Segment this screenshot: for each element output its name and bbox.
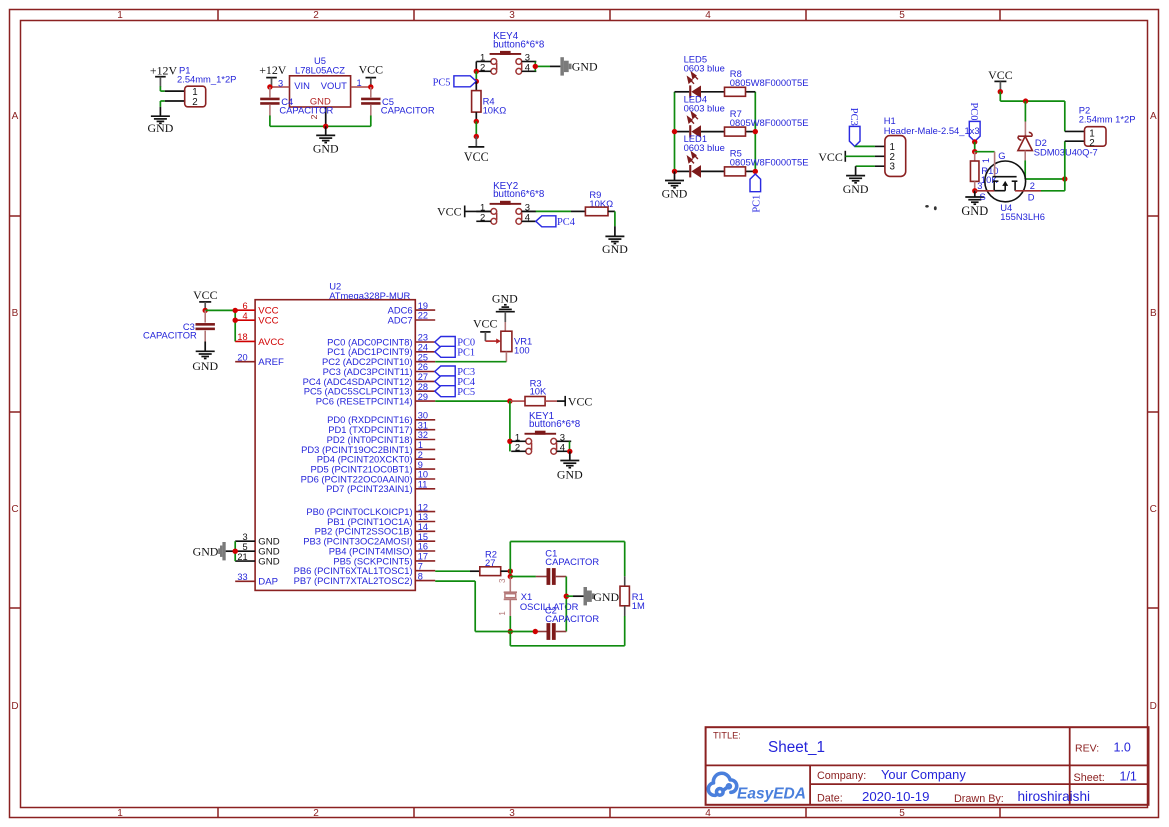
wire VCC arrow to VR1 wiper — [485, 339, 501, 344]
svg-text:C: C — [1150, 504, 1157, 515]
wire U2 pin29 to R3 — [435, 400, 510, 402]
svg-text:5: 5 — [899, 808, 905, 819]
U2 pin 4 VCC — [235, 311, 278, 327]
svg-text:VCC: VCC — [359, 62, 384, 76]
U2 pin 9 PD5 — [310, 460, 435, 475]
svg-text:VCC: VCC — [568, 394, 593, 408]
svg-text:PC0: PC0 — [968, 102, 979, 120]
U2 pin 1 PD3 — [301, 440, 435, 455]
svg-text:25: 25 — [418, 352, 428, 362]
svg-text:S: S — [980, 191, 986, 202]
svg-text:PD7 (PCINT23AIN1): PD7 (PCINT23AIN1) — [326, 483, 412, 494]
junction R3/KEY1 — [507, 398, 512, 403]
junction PC5 tap — [474, 79, 479, 84]
svg-text:27: 27 — [418, 372, 428, 382]
U2 pin 29 PC6 — [316, 392, 436, 407]
net flag PC1 — [750, 174, 762, 213]
svg-text:+12V: +12V — [259, 63, 287, 77]
svg-text:GND: GND — [193, 545, 219, 559]
svg-text:5: 5 — [899, 10, 905, 21]
wire R4 to VCC — [475, 121, 477, 136]
svg-text:PC5: PC5 — [457, 387, 475, 398]
svg-text:C: C — [11, 504, 18, 515]
svg-text:Drawn By:: Drawn By: — [954, 793, 1004, 805]
junction U2 pin4 — [233, 318, 238, 323]
U2 pin 22 ADC7 — [388, 311, 436, 326]
svg-text:3: 3 — [242, 532, 247, 542]
U2 pin 3 GND — [235, 532, 279, 548]
wire LED resistor rail — [754, 92, 756, 172]
net flag +12V (U5 input) — [259, 63, 287, 87]
wire U2 pin7 to R2 — [435, 570, 480, 572]
U2 pin 10 PD6 — [301, 470, 436, 485]
net flag VCC (U2) — [193, 288, 218, 310]
svg-text:13: 13 — [418, 512, 428, 522]
svg-text:2: 2 — [192, 97, 197, 108]
LED LED5 0603 blue — [684, 54, 725, 99]
ground GND (VR1) — [492, 291, 518, 322]
svg-text:PC5: PC5 — [433, 78, 451, 89]
U2 pin 30 PD0 — [327, 411, 435, 426]
junction X1 bottom — [508, 629, 513, 634]
svg-text:0805W8F0000T5E: 0805W8F0000T5E — [730, 117, 809, 128]
net flag VCC (VR1 wiper) — [473, 317, 498, 342]
ground port GND (KEY4) — [560, 57, 598, 75]
svg-text:PC6 (RESETPCINT14): PC6 (RESETPCINT14) — [316, 396, 413, 407]
net flag VCC (below R4) — [464, 137, 489, 164]
button KEY2 — [476, 181, 545, 224]
svg-text:PC3: PC3 — [848, 108, 859, 126]
svg-text:12: 12 — [418, 502, 428, 512]
svg-text:10KΩ: 10KΩ — [483, 104, 507, 115]
U2 pin 16 PB4 — [329, 542, 435, 557]
wire PC3 to H1 pin1 — [855, 145, 885, 147]
svg-text:4: 4 — [560, 442, 565, 453]
svg-text:SDM03U40Q-7: SDM03U40Q-7 — [1034, 146, 1098, 157]
svg-text:D: D — [1028, 192, 1035, 203]
svg-text:PC1: PC1 — [751, 195, 762, 213]
U2 pin 26 PC3 — [323, 362, 436, 377]
svg-text:VCC: VCC — [473, 317, 498, 331]
svg-text:AREF: AREF — [258, 357, 284, 368]
capacitor C2 — [510, 605, 599, 640]
svg-text:29: 29 — [418, 392, 428, 402]
svg-text:2: 2 — [1089, 138, 1094, 149]
junction LED rail left row3 — [672, 169, 677, 174]
EasyEDA logo — [708, 773, 806, 802]
svg-text:17: 17 — [418, 552, 428, 562]
U2 pin 23 PC0 — [327, 333, 435, 348]
wire LED4 row — [675, 131, 756, 133]
junction PC0 tip — [972, 139, 977, 144]
svg-text:L78L05ACZ: L78L05ACZ — [295, 65, 345, 76]
junction U2 pin5 GND — [233, 549, 238, 554]
svg-text:Header-Male-2.54_1x3: Header-Male-2.54_1x3 — [884, 125, 980, 136]
svg-text:Your Company: Your Company — [881, 767, 966, 782]
svg-text:REV:: REV: — [1075, 742, 1099, 754]
svg-text:D: D — [1150, 701, 1157, 712]
wire VCC to U2 pin6/pin4/pin18 — [205, 310, 235, 341]
net flag +12V (P1) — [150, 63, 178, 86]
svg-text:CAPACITOR: CAPACITOR — [545, 556, 599, 567]
wire C4/C5 to GND rail — [270, 116, 371, 127]
net flag PC4 — [522, 216, 576, 228]
ground GND (U4 source) — [961, 191, 988, 218]
svg-text:AVCC: AVCC — [258, 337, 284, 348]
svg-text:VOUT: VOUT — [321, 80, 347, 91]
svg-text:0805W8F0000T5E: 0805W8F0000T5E — [730, 77, 809, 88]
wire crystal left rail — [509, 542, 511, 577]
net flag VCC (U5 output) — [359, 62, 384, 87]
net flag VCC (H1) — [818, 150, 845, 164]
wire VCC to H1 pin2 — [845, 155, 885, 157]
wire KEY1 pins 3-4 to GND — [569, 441, 571, 451]
wire C1/C2 right rail — [565, 577, 567, 632]
svg-text:GND: GND — [313, 141, 339, 155]
potentiometer VR1 100 — [501, 322, 532, 362]
junction VCC stem — [998, 89, 1003, 94]
resistor R2 27 — [480, 549, 511, 576]
U2 pin 6 VCC — [235, 301, 278, 317]
resistor R5 0805W8F0000T5E — [725, 148, 809, 176]
title block — [706, 727, 1149, 805]
U2 pin 32 PD2 — [327, 430, 436, 445]
svg-text:VCC: VCC — [258, 316, 278, 327]
svg-text:ADC7: ADC7 — [388, 314, 413, 325]
svg-text:1M: 1M — [632, 600, 645, 611]
junction KEY4 pin4 net — [533, 64, 538, 69]
wire PC5 tap to R4 — [475, 81, 477, 90]
svg-text:21: 21 — [237, 552, 247, 562]
crystal X1 OSCILLATOR — [498, 577, 578, 617]
svg-text:CAPACITOR: CAPACITOR — [143, 330, 197, 341]
svg-text:A: A — [12, 111, 19, 122]
svg-text:PB7 (PCINT7XTAL2TOSC2): PB7 (PCINT7XTAL2TOSC2) — [294, 575, 413, 586]
svg-text:EasyEDA: EasyEDA — [737, 786, 806, 803]
junction R4 lower 2 — [474, 134, 479, 139]
junction LED rail left row2 — [672, 129, 677, 134]
net flag PC1 (U2 pin24) — [435, 346, 475, 358]
U2 pin 25 PC2 — [322, 352, 435, 367]
svg-text:31: 31 — [418, 420, 428, 430]
capacitor C4 — [260, 87, 333, 116]
svg-text:button6*6*8: button6*6*8 — [493, 189, 545, 200]
svg-text:26: 26 — [418, 362, 428, 372]
svg-text:GND: GND — [148, 121, 174, 135]
ground GND (R9) — [605, 235, 624, 237]
junction resistor rail row3 — [753, 169, 758, 174]
svg-text:3: 3 — [977, 181, 982, 191]
wire U2 GND pins — [234, 541, 236, 561]
svg-text:24: 24 — [418, 343, 428, 353]
svg-text:155N3LH6: 155N3LH6 — [1000, 211, 1045, 222]
junction drain rail — [1062, 176, 1067, 181]
svg-text:GND: GND — [572, 60, 598, 74]
svg-text:6: 6 — [242, 301, 247, 311]
svg-text:A: A — [1150, 111, 1157, 122]
wire +12V to P1 pin 1 — [160, 86, 184, 91]
wire crystal bottom-left — [509, 632, 511, 646]
resistor R3 10K — [510, 377, 565, 405]
svg-text:5: 5 — [242, 542, 247, 552]
wire LED5 row — [675, 91, 756, 93]
wire KEY4 pins 3-4 and to GND — [535, 62, 560, 72]
wire gate tap to U4 gate — [975, 151, 995, 153]
svg-text:100: 100 — [514, 345, 530, 356]
U2 pin 31 PD1 — [328, 420, 435, 435]
svg-text:3: 3 — [509, 808, 515, 819]
svg-text:11: 11 — [418, 480, 428, 490]
U2 pin 24 PC1 — [327, 343, 435, 358]
svg-text:2: 2 — [515, 442, 520, 453]
junction U5 pin1 — [368, 84, 373, 89]
wire R1 top — [624, 542, 626, 577]
ground port GND (crystal) — [566, 587, 619, 605]
U2 pin 15 PB3 — [303, 532, 435, 547]
svg-text:4: 4 — [705, 10, 711, 21]
resistor R4 10K — [472, 91, 507, 122]
svg-text:3: 3 — [278, 79, 283, 89]
svg-text:G: G — [998, 150, 1005, 161]
svg-text:19: 19 — [418, 301, 428, 311]
diode D2 SDM03U40Q-7 — [1018, 101, 1098, 160]
svg-text:DAP: DAP — [258, 577, 278, 588]
svg-text:1: 1 — [357, 78, 362, 88]
svg-text:8: 8 — [418, 571, 423, 581]
regulator U5 L78L05ACZ — [270, 55, 371, 127]
svg-text:1: 1 — [117, 808, 123, 819]
junction U5 pin3 — [267, 84, 272, 89]
wire U2 pin25 to VR1 — [435, 361, 506, 363]
svg-text:GND: GND — [258, 557, 279, 568]
wire VCC rail to P2 pin1 — [1000, 92, 1065, 132]
svg-text:PC4: PC4 — [557, 217, 576, 228]
LED LED1 0603 blue — [684, 133, 725, 178]
junction U4 source — [972, 188, 977, 193]
wire LED cathode rail — [674, 92, 676, 172]
svg-text:9: 9 — [418, 460, 423, 470]
U2 pin 7 PB6 — [294, 561, 436, 576]
net flag VCC (U4) — [988, 68, 1013, 92]
U2 pin 11 PD7 — [326, 480, 435, 495]
junction KEY4 pin2 — [474, 69, 479, 74]
junction KEY1 pin1 — [507, 439, 512, 444]
svg-text:TITLE:: TITLE: — [713, 730, 741, 740]
resistor R8 0805W8F0000T5E — [725, 68, 809, 96]
wire P2 pin2 to drain — [1041, 141, 1065, 191]
U2 pin 2 PD4 — [317, 450, 435, 465]
svg-text:Sheet:: Sheet: — [1074, 772, 1105, 784]
svg-text:20: 20 — [237, 352, 247, 362]
svg-text:+12V: +12V — [150, 63, 178, 77]
wire PC0 to R10/gate — [974, 142, 976, 152]
svg-text:GND: GND — [557, 467, 583, 481]
net flag PC0 — [968, 102, 980, 141]
svg-text:VCC: VCC — [818, 150, 843, 164]
svg-text:1.0: 1.0 — [1114, 740, 1131, 754]
junction KEY1 pin4 — [567, 449, 572, 454]
svg-text:VCC: VCC — [437, 204, 462, 218]
svg-text:14: 14 — [418, 522, 428, 532]
wire crystal bottom edge — [510, 645, 624, 647]
svg-text:Company:: Company: — [817, 770, 866, 782]
svg-text:D: D — [11, 701, 18, 712]
svg-text:23: 23 — [418, 333, 428, 343]
connector P2 — [1065, 105, 1136, 150]
net flag PC3 (U2 pin26) — [435, 366, 475, 378]
wire LED1 row — [675, 170, 756, 172]
junction U5 GND rail — [323, 124, 328, 129]
net flag PC4 (U2 pin27) — [435, 376, 476, 388]
svg-text:GND: GND — [492, 291, 518, 305]
svg-text:2.54mm_1*2P: 2.54mm_1*2P — [177, 74, 236, 85]
svg-text:18: 18 — [237, 332, 247, 342]
svg-text:3: 3 — [498, 578, 507, 583]
U2 pin 27 PC4 — [303, 372, 436, 387]
ground GND (KEY1) — [557, 451, 583, 481]
svg-text:2: 2 — [480, 212, 485, 223]
junction R2 output — [508, 569, 513, 574]
svg-text:CAPACITOR: CAPACITOR — [279, 104, 333, 115]
stray dots — [925, 205, 936, 210]
svg-text:0805W8F0000T5E: 0805W8F0000T5E — [730, 157, 809, 168]
svg-text:16: 16 — [418, 542, 428, 552]
wire GND to H1 pin3 — [856, 166, 885, 175]
U2 pin 21 GND — [235, 552, 279, 568]
transistor U4 155N3LH6 (N-MOSFET) — [975, 150, 1045, 222]
svg-text:GND: GND — [843, 182, 869, 196]
ground GND (H1) — [846, 175, 865, 177]
svg-text:2: 2 — [1030, 181, 1035, 191]
svg-text:GND: GND — [192, 359, 218, 373]
wire R1 bottom — [624, 616, 626, 646]
wire crystal top edge — [510, 541, 624, 543]
net flag PC5 — [433, 76, 477, 89]
svg-text:VCC: VCC — [464, 150, 489, 164]
U2 pin 8 PB7 — [294, 571, 436, 586]
net flag PC3 — [848, 108, 860, 147]
connector P1 — [177, 64, 236, 108]
svg-text:button6*6*8: button6*6*8 — [529, 419, 581, 430]
wire KEY1 pin1 rail — [509, 401, 511, 451]
svg-text:2: 2 — [313, 10, 319, 21]
wire P1 pin 2 to GND — [160, 101, 184, 116]
U2 pin 17 PB5 — [333, 552, 435, 567]
svg-text:4: 4 — [525, 62, 530, 73]
svg-text:GND: GND — [961, 204, 988, 218]
header H1 Header-Male-2.54_1x3 — [884, 115, 980, 176]
svg-text:VCC: VCC — [193, 288, 218, 302]
svg-text:2.54mm 1*2P: 2.54mm 1*2P — [1079, 114, 1136, 125]
net flag PC5 (U2 pin28) — [435, 386, 475, 398]
junction VCC/C3 — [203, 308, 208, 313]
resistor R10 10K — [970, 152, 998, 191]
svg-text:2: 2 — [480, 62, 485, 73]
svg-text:hiroshiraishi: hiroshiraishi — [1018, 789, 1091, 804]
wire KEY4 pin2 to PC5 — [475, 71, 477, 81]
svg-text:1: 1 — [418, 440, 423, 450]
svg-text:Sheet_1: Sheet_1 — [768, 739, 825, 756]
svg-text:0603 blue: 0603 blue — [684, 102, 725, 113]
svg-text:28: 28 — [418, 382, 428, 392]
svg-text:1: 1 — [498, 611, 507, 616]
resistor R1 1M — [620, 576, 645, 616]
svg-text:GND: GND — [602, 242, 628, 256]
svg-text:1: 1 — [981, 158, 991, 163]
svg-text:10K: 10K — [981, 174, 998, 185]
wire X1 bottom to rail — [509, 616, 511, 632]
junction resistor rail row2 — [753, 129, 758, 134]
capacitor C5 — [361, 87, 435, 116]
svg-text:22: 22 — [418, 311, 428, 321]
wire KEY2 pin3 to R9 — [522, 210, 586, 212]
svg-text:VCC: VCC — [988, 68, 1013, 82]
svg-text:Date:: Date: — [817, 793, 843, 805]
svg-text:7: 7 — [418, 561, 423, 571]
junction gate tap — [972, 149, 977, 154]
svg-text:1/1: 1/1 — [1120, 770, 1137, 784]
capacitor C1 — [510, 547, 599, 584]
wire R9 to GND — [614, 211, 616, 236]
svg-text:2: 2 — [313, 808, 319, 819]
U2 pin 19 ADC6 — [388, 301, 436, 316]
svg-text:CAPACITOR: CAPACITOR — [545, 613, 599, 624]
ground GND (P1) — [148, 116, 174, 135]
junction R4 lower 1 — [474, 119, 479, 124]
svg-text:B: B — [1150, 308, 1157, 319]
svg-text:0603 blue: 0603 blue — [684, 142, 725, 153]
ground GND (U5) — [313, 126, 339, 155]
junction GND tap (crystal) — [564, 594, 569, 599]
U2 pin 14 PB2 — [315, 522, 436, 537]
button KEY1 — [511, 411, 581, 454]
net flag VCC (KEY2) — [437, 204, 465, 218]
svg-text:button6*6*8: button6*6*8 — [493, 39, 545, 50]
wire KEY4 pins 1-2 — [475, 62, 477, 72]
ground port GND (U2) — [193, 542, 236, 560]
ground GND (C3) — [196, 350, 215, 352]
junction C2 left — [533, 629, 538, 634]
button KEY4 — [476, 31, 545, 74]
svg-text:2020-10-19: 2020-10-19 — [862, 789, 929, 804]
svg-text:10K: 10K — [530, 386, 547, 397]
U2 pin 33 DAP — [235, 572, 278, 588]
svg-text:30: 30 — [418, 411, 428, 421]
wire D2 cathode to drain rail — [1025, 160, 1065, 179]
U2 pin 20 AREF — [235, 352, 284, 368]
net flag PC0 (U2 pin23) — [435, 337, 475, 349]
svg-text:GND: GND — [593, 590, 619, 604]
LED LED4 0603 blue — [684, 93, 725, 137]
wire U2 pin8 loop — [435, 581, 510, 631]
svg-text:1: 1 — [117, 10, 123, 21]
U2 pin 28 PC5 — [304, 382, 435, 397]
resistor R7 0805W8F0000T5E — [725, 108, 809, 136]
svg-text:0603 blue: 0603 blue — [684, 63, 725, 74]
MCU U2 ATmega328P-MUR — [255, 281, 415, 591]
svg-text:4: 4 — [242, 311, 247, 321]
svg-text:B: B — [12, 308, 19, 319]
U2 pin 5 GND — [235, 542, 279, 558]
ground GND (LED column) — [662, 171, 688, 200]
U2 pin 12 PB0 — [306, 502, 435, 517]
junction C1 tap — [508, 574, 513, 579]
net flag VCC (R3) — [565, 394, 592, 408]
svg-text:4: 4 — [705, 808, 711, 819]
junction U2 pin6 — [233, 308, 238, 313]
resistor R9 10K — [585, 189, 615, 216]
svg-text:2: 2 — [418, 450, 423, 460]
